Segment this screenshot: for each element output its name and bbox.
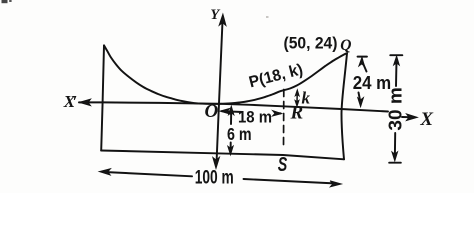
svg-text:X′: X′ bbox=[63, 92, 78, 111]
wire right vertical side of deck bbox=[342, 53, 348, 159]
dimension 30 m vertical double arrow with end ticks bbox=[390, 54, 402, 56]
svg-text:k: k bbox=[302, 89, 311, 108]
svg-text:O: O bbox=[205, 101, 219, 122]
dimension 24 m vertical double arrow with top tick bbox=[358, 56, 367, 58]
decorative scan specks top-left bbox=[2, 0, 8, 3]
svg-text:S: S bbox=[278, 154, 288, 176]
wire parabolic cable curve bbox=[104, 45, 347, 104]
dimension 6 m vertical arrows bbox=[230, 110, 232, 124]
svg-text:100 m: 100 m bbox=[195, 166, 234, 188]
svg-text:Y: Y bbox=[210, 7, 220, 23]
dimension 18 m horizontal double arrow bbox=[222, 110, 243, 113]
wire dashed line from curve through R to S bbox=[283, 90, 285, 149]
node X' arrowhead bbox=[80, 99, 91, 105]
wire left vertical side of deck bbox=[101, 46, 104, 151]
svg-text:30 m: 30 m bbox=[385, 87, 406, 130]
wire bottom line of deck bbox=[101, 151, 344, 160]
dimension 100 m horizontal double arrow bbox=[105, 172, 335, 183]
svg-text:X: X bbox=[419, 109, 434, 130]
svg-text:Q: Q bbox=[340, 37, 351, 54]
svg-text:(50, 24): (50, 24) bbox=[284, 35, 338, 53]
label 30 m rotated bbox=[385, 87, 406, 130]
wire Y axis line bbox=[217, 19, 223, 161]
dimension k small vertical double arrow bbox=[296, 94, 298, 103]
wire X axis line bbox=[79, 102, 411, 117]
node Y top arrowhead bbox=[219, 14, 226, 25]
node Y bottom arrowhead bbox=[213, 157, 220, 168]
node X arrowhead bbox=[407, 114, 418, 121]
svg-text:6 m: 6 m bbox=[227, 124, 252, 144]
